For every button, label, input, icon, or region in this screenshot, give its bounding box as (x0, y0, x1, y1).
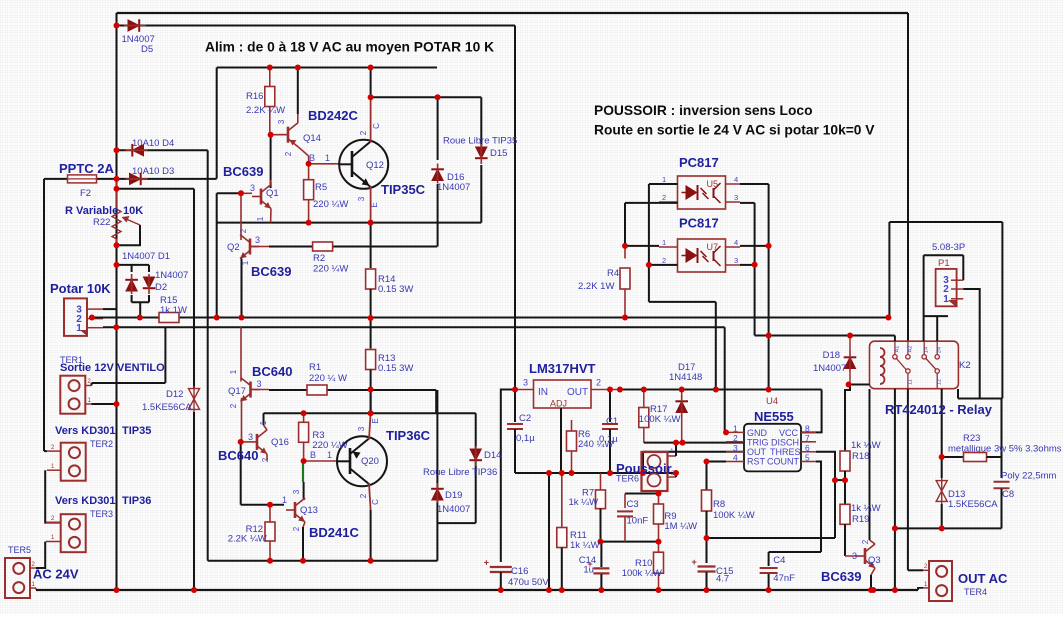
svg-text:5: 5 (805, 453, 810, 463)
svg-text:1N4148: 1N4148 (669, 372, 702, 383)
svg-text:1: 1 (229, 369, 238, 374)
svg-text:2: 2 (596, 378, 601, 388)
svg-text:2: 2 (292, 526, 301, 531)
svg-text:B: B (309, 153, 315, 163)
svg-text:R4: R4 (607, 268, 619, 279)
svg-text:R8: R8 (713, 499, 725, 510)
svg-text:1: 1 (325, 153, 330, 163)
svg-text:12: 12 (937, 379, 943, 385)
svg-text:R19: R19 (852, 514, 869, 525)
svg-text:6: 6 (805, 443, 810, 453)
svg-text:470u 50V: 470u 50V (508, 577, 549, 588)
svg-text:1: 1 (76, 323, 82, 334)
svg-text:TRIG: TRIG (747, 438, 769, 448)
svg-text:24: 24 (937, 347, 943, 353)
svg-text:metallique 3w 5% 3.3ohms: metallique 3w 5% 3.3ohms (948, 444, 1062, 455)
svg-text:1k 1W: 1k 1W (160, 305, 187, 316)
svg-text:BC639: BC639 (223, 164, 263, 179)
svg-text:Q3: Q3 (868, 555, 881, 566)
svg-text:NE555: NE555 (754, 409, 794, 424)
svg-text:P1: P1 (938, 258, 950, 269)
svg-text:100k ¼W: 100k ¼W (622, 568, 662, 579)
svg-text:Q2: Q2 (227, 242, 240, 253)
svg-text:BC639: BC639 (251, 264, 291, 279)
svg-text:Q14: Q14 (303, 133, 321, 144)
svg-text:R5: R5 (315, 182, 327, 193)
svg-text:Q17: Q17 (228, 386, 246, 397)
svg-text:PPTC 2A: PPTC 2A (59, 161, 115, 176)
svg-text:0,1µ: 0,1µ (516, 433, 535, 444)
svg-text:PC817: PC817 (679, 155, 719, 170)
svg-text:TER5: TER5 (8, 545, 31, 555)
svg-text:Poly 22,5mm: Poly 22,5mm (1001, 471, 1057, 482)
svg-text:GND: GND (747, 428, 768, 438)
svg-text:2: 2 (662, 256, 666, 265)
svg-text:1N4007: 1N4007 (437, 504, 470, 515)
svg-text:E: E (371, 418, 380, 423)
svg-text:2.2K 1W: 2.2K 1W (578, 281, 614, 292)
svg-text:TER6: TER6 (616, 474, 639, 484)
svg-text:2: 2 (733, 433, 738, 443)
svg-text:TIP36: TIP36 (122, 495, 151, 507)
svg-text:Route en sortie le 24 V AC si: Route en sortie le 24 V AC si potar 10k=… (594, 123, 875, 138)
svg-text:14: 14 (924, 347, 930, 353)
svg-text:1k ¼W: 1k ¼W (851, 440, 881, 451)
svg-text:POUSSOIR : inversion sens Loco: POUSSOIR : inversion sens Loco (594, 103, 813, 118)
svg-text:C2: C2 (519, 413, 531, 424)
svg-text:3: 3 (357, 196, 366, 201)
svg-text:1: 1 (943, 294, 949, 305)
svg-text:1: 1 (327, 450, 332, 460)
svg-text:BD241C: BD241C (309, 525, 359, 540)
svg-text:PC817: PC817 (679, 216, 719, 231)
svg-text:D18: D18 (823, 350, 840, 361)
svg-text:2: 2 (261, 457, 270, 462)
svg-text:2: 2 (359, 493, 368, 498)
svg-text:D5: D5 (141, 44, 153, 55)
svg-text:BD242C: BD242C (308, 108, 358, 123)
svg-text:10A10 D3: 10A10 D3 (132, 166, 174, 177)
svg-text:TIP36C: TIP36C (386, 428, 431, 443)
svg-text:100K ¼W: 100K ¼W (639, 414, 681, 425)
svg-text:Vers KD301: Vers KD301 (55, 425, 116, 437)
svg-text:1N4007: 1N4007 (813, 363, 846, 374)
svg-text:D12: D12 (166, 389, 183, 400)
svg-text:1: 1 (259, 420, 268, 425)
svg-text:C3: C3 (627, 499, 639, 510)
svg-text:A1: A1 (895, 346, 901, 353)
svg-text:1M ¼W: 1M ¼W (664, 521, 697, 532)
svg-text:10A10 D4: 10A10 D4 (132, 138, 174, 149)
svg-text:TER1: TER1 (60, 355, 83, 365)
svg-text:D15: D15 (490, 148, 507, 159)
svg-text:2: 2 (662, 193, 666, 202)
svg-text:4: 4 (734, 238, 738, 247)
svg-text:3: 3 (357, 426, 366, 431)
svg-text:D19: D19 (445, 490, 462, 501)
svg-text:4: 4 (733, 453, 738, 463)
svg-text:3: 3 (734, 193, 738, 202)
svg-text:2: 2 (861, 539, 870, 544)
svg-text:RT424012 - Relay: RT424012 - Relay (885, 402, 993, 417)
svg-text:R2: R2 (313, 253, 325, 264)
svg-text:3: 3 (277, 119, 286, 124)
svg-text:OUT AC: OUT AC (958, 571, 1008, 586)
svg-text:1k ¼W: 1k ¼W (570, 540, 600, 551)
svg-text:1N4007 D1: 1N4007 D1 (122, 251, 170, 262)
svg-text:10nF: 10nF (627, 516, 649, 527)
svg-text:Q13: Q13 (300, 505, 318, 516)
svg-text:3: 3 (523, 378, 528, 388)
svg-text:5.08-3P: 5.08-3P (932, 242, 965, 253)
svg-text:E: E (370, 202, 379, 207)
svg-text:1N4007: 1N4007 (155, 270, 188, 281)
svg-text:R23: R23 (963, 433, 980, 444)
svg-text:1k ¼W: 1k ¼W (851, 503, 881, 514)
svg-text:C: C (372, 123, 381, 129)
svg-text:R22: R22 (93, 217, 110, 228)
svg-text:Roue Libre TIP36: Roue Libre TIP36 (423, 467, 497, 478)
svg-text:1u: 1u (583, 565, 594, 576)
svg-text:1.5KE56CA: 1.5KE56CA (948, 499, 998, 510)
svg-text:3: 3 (248, 432, 253, 442)
svg-text:R16: R16 (246, 91, 263, 102)
svg-text:COUNT: COUNT (767, 457, 799, 467)
svg-text:ADJ: ADJ (550, 399, 567, 409)
svg-text:R18: R18 (852, 451, 869, 462)
svg-text:3: 3 (852, 551, 857, 561)
svg-text:1: 1 (662, 175, 666, 184)
svg-text:Q1: Q1 (266, 188, 279, 199)
svg-text:3: 3 (255, 235, 260, 245)
svg-text:1: 1 (256, 216, 265, 221)
svg-text:U7: U7 (707, 242, 719, 252)
svg-text:THRES: THRES (770, 447, 801, 457)
svg-text:3: 3 (734, 256, 738, 265)
svg-text:1.5KE56CA: 1.5KE56CA (142, 402, 192, 413)
svg-text:2: 2 (239, 228, 248, 233)
svg-text:TIP35C: TIP35C (381, 182, 426, 197)
svg-text:+: + (692, 557, 697, 567)
svg-text:D2: D2 (155, 282, 167, 293)
svg-text:Roue Libre TIP35: Roue Libre TIP35 (443, 136, 517, 147)
svg-text:0.15 3W: 0.15 3W (378, 284, 413, 295)
svg-text:10K: 10K (123, 205, 143, 217)
svg-text:Vers KD301: Vers KD301 (55, 495, 116, 507)
svg-text:220 ¼ W: 220 ¼ W (309, 373, 347, 384)
svg-text:C4: C4 (773, 555, 785, 566)
svg-text:U5: U5 (707, 179, 719, 189)
svg-text:IN: IN (538, 387, 548, 398)
svg-text:100K ¼W: 100K ¼W (713, 510, 755, 521)
svg-text:Q20: Q20 (361, 456, 379, 467)
svg-text:VCC: VCC (779, 428, 799, 438)
svg-text:Q16: Q16 (271, 437, 289, 448)
svg-text:TER2: TER2 (90, 439, 113, 449)
svg-text:1N4007: 1N4007 (437, 182, 470, 193)
svg-text:BC639: BC639 (821, 569, 861, 584)
svg-text:DISCH: DISCH (771, 438, 799, 448)
svg-text:3: 3 (250, 183, 255, 193)
svg-text:C8: C8 (1002, 489, 1014, 500)
svg-text:F2: F2 (80, 188, 91, 199)
svg-text:1: 1 (241, 260, 250, 265)
svg-text:BC640: BC640 (218, 448, 258, 463)
svg-text:VENTILO: VENTILO (117, 362, 165, 374)
svg-text:Potar 10K: Potar 10K (50, 281, 111, 296)
svg-text:2: 2 (359, 130, 368, 135)
svg-text:1: 1 (670, 448, 674, 455)
svg-text:Alim : de 0 à 18 V AC au moyen: Alim : de 0 à 18 V AC au moyen POTAR 10 … (205, 40, 494, 55)
svg-text:RST: RST (747, 457, 766, 467)
svg-text:220 ¼W: 220 ¼W (313, 199, 348, 210)
svg-text:TER3: TER3 (90, 509, 113, 519)
svg-text:+: + (484, 558, 489, 568)
svg-text:2.2K ¼W: 2.2K ¼W (246, 105, 285, 116)
svg-text:1: 1 (662, 238, 666, 247)
svg-text:2: 2 (229, 403, 238, 408)
svg-text:K2: K2 (959, 360, 971, 371)
svg-text:LM317HVT: LM317HVT (529, 361, 596, 376)
svg-text:TIP35: TIP35 (122, 425, 151, 437)
svg-text:1k ¼W: 1k ¼W (569, 497, 599, 508)
svg-text:OUT: OUT (567, 387, 588, 398)
svg-text:AC 24V: AC 24V (33, 567, 79, 582)
svg-text:4: 4 (734, 175, 738, 184)
svg-text:3: 3 (257, 379, 262, 389)
svg-text:A2: A2 (908, 346, 914, 353)
svg-text:OUT: OUT (747, 447, 767, 457)
svg-text:BC640: BC640 (252, 364, 292, 379)
svg-text:4.7: 4.7 (716, 574, 729, 585)
svg-text:3: 3 (292, 489, 301, 494)
svg-text:2: 2 (284, 151, 293, 156)
svg-text:0.15 3W: 0.15 3W (378, 363, 413, 374)
svg-text:0,1µ: 0,1µ (599, 434, 618, 445)
svg-text:47nF: 47nF (773, 573, 795, 584)
svg-text:U4: U4 (766, 396, 778, 407)
svg-text:C1: C1 (606, 416, 618, 427)
svg-text:2.2K ¼W: 2.2K ¼W (228, 534, 267, 545)
svg-text:R Variable: R Variable (65, 205, 118, 217)
svg-text:220 ¼W: 220 ¼W (313, 264, 348, 275)
svg-text:TER4: TER4 (964, 587, 987, 597)
svg-text:3: 3 (733, 443, 738, 453)
svg-text:R1: R1 (309, 362, 321, 373)
svg-text:11: 11 (908, 379, 914, 385)
svg-text:D14: D14 (484, 450, 501, 461)
svg-text:B: B (310, 450, 316, 460)
svg-text:1: 1 (282, 495, 287, 505)
svg-text:C: C (371, 499, 380, 505)
svg-text:C16: C16 (511, 566, 528, 577)
svg-text:Q12: Q12 (366, 160, 384, 171)
